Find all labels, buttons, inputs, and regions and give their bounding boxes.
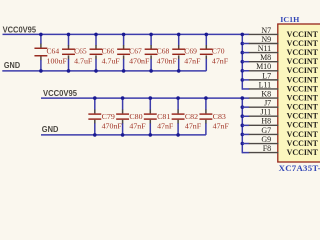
svg-text:VCCINT: VCCINT bbox=[287, 48, 319, 57]
svg-text:VCCINT: VCCINT bbox=[287, 130, 319, 139]
svg-text:C69: C69 bbox=[184, 46, 197, 55]
junction bus / pin L7 bbox=[241, 78, 245, 82]
svg-text:C64: C64 bbox=[47, 46, 60, 55]
wire stub bus to pin G7 bbox=[242, 133, 249, 135]
wire VCC0V95 rail row 2 bbox=[41, 97, 249, 99]
wire stub bus to pin J11 bbox=[242, 115, 249, 117]
svg-text:J7: J7 bbox=[264, 99, 271, 108]
svg-text:GND: GND bbox=[4, 61, 21, 70]
svg-text:VCCINT: VCCINT bbox=[287, 103, 319, 112]
junction bus / pin N9 bbox=[241, 42, 245, 46]
capacitor C79 (470nF) bbox=[88, 98, 101, 135]
svg-text:N7: N7 bbox=[261, 26, 271, 35]
svg-text:4.7uF: 4.7uF bbox=[74, 57, 92, 66]
svg-text:L7: L7 bbox=[262, 71, 271, 80]
wire stub bus to pin N9 bbox=[242, 42, 249, 44]
wire stub bus to pin L11 bbox=[242, 88, 249, 90]
junction bus / pin N11 bbox=[241, 51, 245, 55]
svg-text:C65: C65 bbox=[74, 46, 87, 55]
svg-text:VCCINT: VCCINT bbox=[287, 75, 319, 84]
junction C64 / VCC0V95 bbox=[39, 33, 43, 37]
junction bus / pin G7 bbox=[241, 133, 245, 137]
svg-text:L11: L11 bbox=[259, 80, 272, 89]
IC1H pin K8 lead bbox=[249, 97, 279, 99]
IC1H pin H8 lead bbox=[249, 124, 279, 126]
IC1H pin G7 lead bbox=[249, 133, 279, 135]
svg-text:47nF: 47nF bbox=[184, 57, 200, 66]
wire GND rail row 2 bbox=[41, 134, 206, 136]
svg-text:VCC0V95: VCC0V95 bbox=[3, 25, 37, 34]
svg-text:VCCINT: VCCINT bbox=[287, 93, 319, 102]
junction C68 / GND bbox=[149, 69, 153, 73]
wire stub bus to pin L7 bbox=[242, 79, 249, 81]
IC1H pin G9 lead bbox=[249, 143, 279, 145]
IC1H pin L11 lead bbox=[249, 88, 279, 90]
svg-text:47nF: 47nF bbox=[212, 57, 228, 66]
junction C65 / GND bbox=[67, 69, 71, 73]
svg-text:M10: M10 bbox=[256, 62, 271, 71]
svg-text:4.7uF: 4.7uF bbox=[102, 57, 120, 66]
IC1H pin N9 lead bbox=[249, 42, 279, 44]
capacitor C82 (47nF) bbox=[172, 98, 185, 135]
svg-text:VCC0V95: VCC0V95 bbox=[43, 89, 78, 98]
svg-text:100uF: 100uF bbox=[47, 57, 67, 66]
junction C81 / GND bbox=[149, 133, 153, 137]
junction C64 / GND bbox=[39, 69, 43, 73]
wire VCCINT vertical bus (upper, N9-L11) bbox=[241, 34, 243, 89]
svg-text:K8: K8 bbox=[261, 89, 271, 98]
svg-text:VCCINT: VCCINT bbox=[287, 112, 319, 121]
wire stub bus to pin M8 bbox=[242, 61, 249, 63]
capacitor C66 (4.7uF) bbox=[90, 34, 103, 71]
svg-text:G7: G7 bbox=[261, 126, 271, 135]
junction C68 / VCC0V95 bbox=[149, 33, 153, 37]
svg-text:VCCINT: VCCINT bbox=[287, 39, 319, 48]
svg-text:47nF: 47nF bbox=[213, 121, 229, 130]
capacitor C65 (4.7uF) bbox=[62, 34, 75, 71]
svg-text:470nF: 470nF bbox=[102, 121, 122, 130]
junction C70 / VCC0V95 bbox=[205, 33, 209, 37]
IC1H pin M10 lead bbox=[249, 70, 279, 72]
svg-text:470nF: 470nF bbox=[157, 57, 177, 66]
junction C69 / VCC0V95 bbox=[177, 33, 181, 37]
junction C80 / VCC0V95 bbox=[121, 96, 125, 100]
IC1H pin N7 lead bbox=[249, 33, 279, 35]
svg-text:VCCINT: VCCINT bbox=[287, 30, 319, 39]
junction C67 / VCC0V95 bbox=[122, 33, 126, 37]
IC1H pin L7 lead bbox=[249, 79, 279, 81]
IC1H pin J7 lead bbox=[249, 106, 279, 108]
IC1H pin M8 lead bbox=[249, 61, 279, 63]
junction C66 / VCC0V95 bbox=[94, 33, 98, 37]
svg-text:VCCINT: VCCINT bbox=[287, 139, 319, 148]
IC1H pin N11 lead bbox=[249, 52, 279, 54]
capacitor C68 (470nF) bbox=[145, 34, 158, 71]
svg-text:VCCINT: VCCINT bbox=[287, 57, 319, 66]
junction C66 / GND bbox=[94, 69, 98, 73]
junction VCC0V95 rail / upper bus bbox=[241, 33, 245, 37]
svg-text:C81: C81 bbox=[157, 112, 171, 121]
wire stub bus to pin G9 bbox=[242, 143, 249, 145]
junction VCC0V95 rail / lower bus bbox=[241, 96, 245, 100]
junction bus / pin J11 bbox=[241, 114, 245, 118]
junction bus / pin M8 bbox=[241, 60, 245, 64]
svg-text:VCCINT: VCCINT bbox=[287, 121, 319, 130]
svg-text:G9: G9 bbox=[261, 135, 271, 144]
capacitor C64 (100uF) bbox=[34, 34, 47, 71]
svg-text:C80: C80 bbox=[129, 112, 143, 121]
junction C83 / VCC0V95 bbox=[204, 96, 208, 100]
junction C82 / VCC0V95 bbox=[176, 96, 180, 100]
junction bus / pin J7 bbox=[241, 105, 245, 109]
svg-text:47nF: 47nF bbox=[185, 121, 201, 130]
capacitor C83 (47nF) bbox=[199, 98, 212, 135]
svg-text:N11: N11 bbox=[258, 44, 271, 53]
svg-text:VCCINT: VCCINT bbox=[287, 66, 319, 75]
junction C82 / GND bbox=[176, 133, 180, 137]
junction bus / pin G9 bbox=[241, 142, 245, 146]
junction C80 / GND bbox=[121, 133, 125, 137]
svg-text:C67: C67 bbox=[129, 46, 142, 55]
wire GND rail row 1 bbox=[2, 70, 206, 72]
capacitor C69 (47nF) bbox=[172, 34, 185, 71]
capacitor C80 (47nF) bbox=[116, 98, 129, 135]
IC IC1H FPGA power block (XC7A35T VCCINT bank) bbox=[278, 24, 320, 162]
junction C65 / VCC0V95 bbox=[67, 33, 71, 37]
svg-text:N9: N9 bbox=[261, 35, 271, 44]
junction C79 / VCC0V95 bbox=[93, 96, 97, 100]
svg-text:F8: F8 bbox=[263, 144, 271, 153]
svg-text:C79: C79 bbox=[102, 112, 116, 121]
svg-text:47nF: 47nF bbox=[129, 121, 145, 130]
junction bus / pin M10 bbox=[241, 69, 245, 73]
svg-text:XC7A35T-IC: XC7A35T-IC bbox=[279, 163, 320, 173]
svg-text:VCCINT: VCCINT bbox=[287, 84, 319, 93]
wire stub bus to pin J7 bbox=[242, 106, 249, 108]
svg-text:C66: C66 bbox=[102, 46, 115, 55]
junction bus / pin H8 bbox=[241, 124, 245, 128]
wire VCC0V95 rail row 1 bbox=[3, 33, 250, 35]
wire VCCINT vertical bus (lower, J7-F8) bbox=[241, 98, 243, 153]
junction C81 / VCC0V95 bbox=[149, 96, 153, 100]
wire stub bus to pin H8 bbox=[242, 124, 249, 126]
IC1H pin F8 lead bbox=[249, 152, 279, 154]
wire stub bus to pin F8 bbox=[242, 152, 249, 154]
svg-text:C70: C70 bbox=[212, 46, 225, 55]
svg-text:GND: GND bbox=[42, 125, 59, 134]
svg-text:VCCINT: VCCINT bbox=[287, 148, 319, 157]
svg-text:C68: C68 bbox=[157, 46, 170, 55]
junction C69 / GND bbox=[177, 69, 181, 73]
wire stub bus to pin M10 bbox=[242, 70, 249, 72]
wire stub bus to pin N11 bbox=[242, 52, 249, 54]
IC1H pin J11 lead bbox=[249, 115, 279, 117]
capacitor C70 (47nF) bbox=[200, 34, 213, 71]
svg-text:470nF: 470nF bbox=[129, 57, 149, 66]
svg-text:IC1H: IC1H bbox=[280, 15, 299, 24]
svg-text:J11: J11 bbox=[260, 108, 271, 117]
svg-text:H8: H8 bbox=[261, 117, 271, 126]
junction C79 / GND bbox=[93, 133, 97, 137]
svg-text:C83: C83 bbox=[213, 112, 227, 121]
svg-text:47nF: 47nF bbox=[157, 121, 173, 130]
junction C67 / GND bbox=[122, 69, 126, 73]
svg-text:C82: C82 bbox=[185, 112, 199, 121]
capacitor C81 (47nF) bbox=[144, 98, 157, 135]
capacitor C67 (470nF) bbox=[117, 34, 130, 71]
svg-text:M8: M8 bbox=[260, 53, 271, 62]
